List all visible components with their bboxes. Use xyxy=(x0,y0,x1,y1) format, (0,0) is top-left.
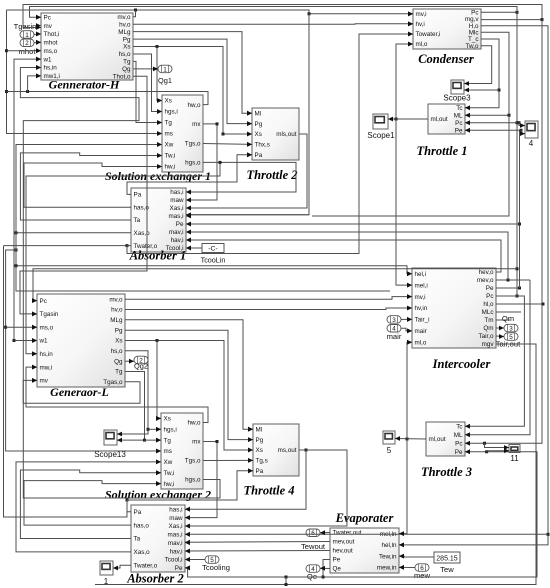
wire Absorber2.Pa to Throttle4.Pa xyxy=(127,468,253,511)
scope Scope3 xyxy=(451,80,464,94)
wire Absorber2.Twater,o to scope 1 xyxy=(113,565,131,570)
svg-text:Xas,o: Xas,o xyxy=(134,549,151,556)
svg-text:ml,out: ml,out xyxy=(429,436,446,443)
wire Gennerator-H.Xs to Throttle2.Xs and Solution exchanger1.Xs xyxy=(133,45,252,136)
svg-text:Tgs,o: Tgs,o xyxy=(185,458,201,465)
svg-text:11: 11 xyxy=(510,454,519,463)
evaporator block Evaporater (flipped) xyxy=(330,528,404,573)
svg-text:hev,out: hev,out xyxy=(333,548,353,555)
wire Generaor-L.Xs to Throttle4.Xs and SolutionExchanger2.Xs xyxy=(125,339,253,452)
label Tcooling xyxy=(202,563,230,572)
svg-text:Tw,o: Tw,o xyxy=(466,43,479,50)
wire Generaor-L.hv,o to Intercooler.hv,in xyxy=(125,306,412,311)
svg-text:mair: mair xyxy=(387,332,402,341)
svg-text:Qg: Qg xyxy=(114,358,123,365)
wire Intercooler.Qm to outport 3 xyxy=(496,326,504,331)
wire Gennerator-H.MLg to Throttle2.Ml xyxy=(133,32,252,116)
wire Condenser.Tw,o to Scope3 xyxy=(464,46,492,86)
label Absorber 1 xyxy=(129,249,187,263)
label Tgasin xyxy=(14,22,37,31)
label 5 xyxy=(387,446,392,455)
wire Condenser.T_c to Throttle1.Tc and Scope3 xyxy=(464,39,501,110)
svg-text:MLg: MLg xyxy=(118,29,131,36)
svg-text:Pg: Pg xyxy=(115,327,123,334)
svg-text:Xas,i: Xas,i xyxy=(170,205,184,212)
label Tair,out xyxy=(496,340,521,349)
label Solution exchanger 1 xyxy=(105,169,211,183)
svg-text:Xs: Xs xyxy=(256,447,263,454)
scope Scope13 xyxy=(104,430,117,445)
wire inport 4 to Intercooler.mair xyxy=(401,328,412,333)
scope 5 xyxy=(383,431,395,444)
svg-text:Ml: Ml xyxy=(256,426,263,433)
svg-text:Pa: Pa xyxy=(134,509,142,516)
svg-text:Ml: Ml xyxy=(255,110,262,117)
wire Absorber1.Xas,o to SolutionExchanger1.Xw and to Intercooler.hel,i xyxy=(15,142,413,276)
svg-text:mav,i: mav,i xyxy=(168,540,183,547)
svg-text:Scope1: Scope1 xyxy=(367,131,395,140)
svg-text:Pg: Pg xyxy=(255,121,263,128)
svg-text:mair: mair xyxy=(415,328,427,335)
wire SolutionExchanger2.hgs,o up left margin switchback to Gennerator-H.hs,in xyxy=(20,65,220,498)
wire inport2 to mhot xyxy=(34,40,41,45)
svg-text:mav,i: mav,i xyxy=(169,229,184,236)
outport Qg2 xyxy=(134,356,148,364)
wire SolutionExchanger1 second hgs,o branch to Absorber1.has,i xyxy=(186,161,296,195)
svg-text:mx: mx xyxy=(192,439,201,446)
label mair xyxy=(387,332,402,341)
wire Evaporater.Pe to Absorber2.Pe and bottom line xyxy=(185,448,537,586)
label Solution exchanger 2 xyxy=(105,488,211,502)
intercooler block Intercooler xyxy=(407,268,496,348)
svg-text:hs,o: hs,o xyxy=(119,51,131,58)
svg-text:Pc: Pc xyxy=(44,14,51,21)
wire left column feed to SolutionExchanger2.ms and Generaor-L.ms,o xyxy=(4,249,161,454)
label Intercooler xyxy=(432,357,491,371)
absorber block Absorber 1 (flipped) xyxy=(131,188,191,252)
svg-text:285.15: 285.15 xyxy=(436,556,458,563)
wire Throttle4.ms,out to Absorber2.Xas,i and has,i xyxy=(185,449,347,529)
svg-text:mv: mv xyxy=(44,23,53,30)
label Qg2 xyxy=(134,362,148,371)
label Evaporater xyxy=(335,511,394,525)
label Qe xyxy=(307,572,317,581)
svg-text:ms: ms xyxy=(164,448,172,455)
svg-text:w1: w1 xyxy=(43,56,53,63)
svg-text:w1: w1 xyxy=(39,338,49,345)
svg-text:Pa: Pa xyxy=(256,468,264,475)
wire Generaor-L.mv,o to Intercooler.mv,i xyxy=(125,294,412,299)
svg-text:has,o: has,o xyxy=(134,522,150,529)
wire Gennerator-H.Tg to SolutionExchanger1.Tg xyxy=(133,61,162,125)
wire Absorber1.Pa to Throttle2.Pa xyxy=(127,152,252,194)
wire line y=291 to Intercooler area xyxy=(15,264,391,291)
svg-text:Throttle 2: Throttle 2 xyxy=(246,168,297,182)
svg-text:Twater,out: Twater,out xyxy=(333,530,362,537)
svg-text:Tgasin: Tgasin xyxy=(14,22,37,31)
label 4 xyxy=(529,139,534,148)
svg-text:Pe: Pe xyxy=(455,449,463,456)
svg-text:Pa: Pa xyxy=(134,192,142,199)
svg-text:hw,o: hw,o xyxy=(188,102,201,109)
svg-text:mas,i: mas,i xyxy=(167,532,182,539)
wire Generaor-L.MLg to Throttle4.Ml xyxy=(125,320,253,432)
wire Generaor-L.Tg to Scope13 and SolutionExchanger2.Tg xyxy=(117,372,161,443)
svg-text:Qg2: Qg2 xyxy=(134,362,148,371)
wire Intercooler.Pc out to Throttle3.Tc xyxy=(465,296,524,429)
svg-text:3: 3 xyxy=(509,326,513,333)
wire mg,v net: Condenser.mg,v up to top line y=4.5 to Gennerator-H.mv and down to Throttle3.Pc xyxy=(23,5,544,446)
svg-text:Xw: Xw xyxy=(164,459,173,466)
svg-text:Tcool,i: Tcool,i xyxy=(165,557,183,564)
svg-text:Pc: Pc xyxy=(455,440,462,447)
svg-text:hs,in: hs,in xyxy=(44,65,58,72)
label Tewout xyxy=(301,542,326,551)
svg-text:ml,out: ml,out xyxy=(431,116,448,123)
svg-text:Tair,o: Tair,o xyxy=(478,333,494,340)
label Condenser xyxy=(418,52,474,66)
svg-text:mas,i: mas,i xyxy=(168,213,183,220)
wire Generaor-L.Tgas,o loop to Generaor-L.mv xyxy=(23,378,140,403)
svg-text:Pc: Pc xyxy=(486,293,493,300)
svg-text:Gennerator-H: Gennerator-H xyxy=(49,78,120,92)
svg-text:1: 1 xyxy=(163,66,167,73)
label Tew xyxy=(440,565,454,574)
wire w1 net vertical x=14 to both generators xyxy=(13,57,42,343)
scope 1 (bottom left) xyxy=(100,561,113,575)
svg-text:Tc: Tc xyxy=(456,423,462,430)
svg-text:Xas,i: Xas,i xyxy=(169,523,183,530)
svg-text:has,i: has,i xyxy=(169,506,182,513)
wire SolutionExchanger1.Tgs,o to Throttle2.Thx,s xyxy=(203,142,252,147)
wire Gennerator-H.hs,o to SolutionExchanger1.hgs,i xyxy=(133,54,162,114)
wire Gennerator-H.Pg to Throttle2.Pg xyxy=(133,39,252,126)
svg-text:hgs,i: hgs,i xyxy=(164,426,177,433)
wire Gennerator-H.Qg to outport Qg1 xyxy=(133,67,158,72)
wire Generaor-L.hs,o to Scope13 and SolutionExchanger2.hgs,i xyxy=(117,351,161,437)
svg-text:Tcooling: Tcooling xyxy=(202,563,230,572)
wire Pe net from Intercooler.Pe up to Throttle1.Pe down to Throttle3.Pe xyxy=(186,128,525,290)
svg-text:hv,o: hv,o xyxy=(111,307,123,314)
svg-text:Pe: Pe xyxy=(176,221,184,228)
wire inport1 to Thot,i xyxy=(34,32,41,37)
label 11 xyxy=(510,454,519,463)
wire Absorber1.Twater,o to Condenser.Towater,i xyxy=(127,32,413,254)
wire inport 3 to Intercooler.Tair_i xyxy=(401,317,412,322)
scope Scope1 xyxy=(373,114,388,129)
svg-text:Ta: Ta xyxy=(134,217,141,224)
svg-text:Tg: Tg xyxy=(165,120,173,127)
svg-text:mv,o: mv,o xyxy=(109,296,123,303)
heat exchanger block Solution exchanger 1 xyxy=(157,95,203,172)
inport 2 xyxy=(20,39,34,47)
svg-text:Xs: Xs xyxy=(115,338,122,345)
wire Generaor-L.Pg to Throttle4.Pg xyxy=(125,330,253,442)
wire Absorber1.Ta to SolutionExchanger1.Tw,i xyxy=(20,153,162,220)
svg-text:Thx,s: Thx,s xyxy=(255,142,270,149)
svg-text:Pg: Pg xyxy=(256,437,264,444)
svg-text:hl,o: hl,o xyxy=(483,301,494,308)
svg-text:Tw,i: Tw,i xyxy=(164,470,175,477)
svg-text:Xs: Xs xyxy=(164,416,171,423)
svg-text:Twater,o: Twater,o xyxy=(134,563,158,570)
svg-text:hel,ln: hel,ln xyxy=(381,542,397,549)
label Scope1 xyxy=(367,131,395,140)
wire SolutionExchanger1.hgs,o to Generaor-L.hs,in xyxy=(26,162,220,356)
svg-text:Pe: Pe xyxy=(455,127,463,134)
svg-text:Absorber 1: Absorber 1 xyxy=(129,249,187,263)
wire Absorber2.Ta to SolutionExchanger2.Tw,i xyxy=(20,470,161,539)
wire left bus x=6.5 / y=10 to Condenser.mv,i and SolutionExchanger1.ms xyxy=(5,9,413,215)
svg-text:mev,o: mev,o xyxy=(477,277,494,284)
wire SolutionExchanger1.hw,o loop to Gennerator-H.mw1,i xyxy=(7,74,209,105)
outport Qg1 xyxy=(158,65,172,73)
svg-text:Absorber 2: Absorber 2 xyxy=(126,572,184,586)
wire SolutionExchanger2.hw,o to Generaor-L.mw,i xyxy=(26,365,208,423)
svg-text:mv,i: mv,i xyxy=(415,294,426,301)
label Scope13 xyxy=(94,450,126,459)
svg-text:3: 3 xyxy=(392,317,396,324)
svg-text:Generaor-L: Generaor-L xyxy=(50,385,109,399)
label Throttle 4 xyxy=(243,484,294,498)
svg-text:mhot: mhot xyxy=(44,40,58,47)
svg-text:ms,o: ms,o xyxy=(40,324,54,331)
svg-text:Ta: Ta xyxy=(134,536,141,543)
svg-text:mew: mew xyxy=(414,571,431,580)
wire Gennerator-H.hv,o to Condenser.hv,i xyxy=(133,21,413,26)
svg-text:Condenser: Condenser xyxy=(418,52,474,66)
wire Evaporater.Qe to outport 4 xyxy=(320,566,330,571)
outport 5 Tair,out xyxy=(504,333,518,341)
svg-text:ML: ML xyxy=(454,432,463,439)
svg-text:Tgs,o: Tgs,o xyxy=(185,140,201,147)
svg-text:hv,o: hv,o xyxy=(119,21,131,28)
svg-text:Tew,in: Tew,in xyxy=(379,553,397,560)
svg-text:Throttle 4: Throttle 4 xyxy=(243,484,294,498)
constant block 285.15 xyxy=(434,552,460,563)
inport 1 xyxy=(20,31,34,39)
wire Generaor-L.Qg to outport Qg2 xyxy=(125,359,134,364)
svg-text:Xs: Xs xyxy=(165,98,172,105)
svg-text:mv: mv xyxy=(40,378,49,385)
wire SolutionExchanger1.mx to Absorber1.maw xyxy=(186,122,219,202)
svg-text:has,i: has,i xyxy=(170,189,183,196)
inport 4 mair xyxy=(387,325,401,333)
svg-text:mx: mx xyxy=(192,121,201,128)
wire right column to Absorber1.mas,i xyxy=(186,114,511,217)
svg-text:1: 1 xyxy=(25,32,29,39)
svg-text:Qg: Qg xyxy=(122,66,131,73)
wire Condenser.H,o down far right to Evaporater.hel,ln xyxy=(399,26,550,548)
svg-text:maw: maw xyxy=(170,197,184,204)
wire constant 285.15 to Evaporater.Tew,in xyxy=(399,554,434,559)
svg-text:ML: ML xyxy=(454,112,463,119)
wire far-left vertical loop x=3.5 xyxy=(4,244,129,517)
svg-text:Pc: Pc xyxy=(455,120,462,127)
svg-text:mv,i: mv,i xyxy=(416,11,427,18)
svg-text:Qg1: Qg1 xyxy=(158,76,172,85)
svg-text:Tair_i: Tair_i xyxy=(415,317,430,324)
svg-text:Tew: Tew xyxy=(440,565,454,574)
absorber block Absorber 2 (flipped) xyxy=(131,505,190,572)
svg-text:mv,o: mv,o xyxy=(117,14,131,21)
svg-text:Solution exchanger 2: Solution exchanger 2 xyxy=(105,488,211,502)
wire Absorber2.Xas,o to SolutionExchanger2.Xw xyxy=(16,460,161,552)
wire Throttle2.mls,out to Absorber1.Xas,i xyxy=(186,134,307,210)
svg-text:hev,o: hev,o xyxy=(479,269,494,276)
wire Throttle1.ml,out to Scope1 and Condenser.ml,o xyxy=(388,42,428,288)
label Throttle 1 xyxy=(416,144,467,158)
outport 6 Tewout xyxy=(306,529,320,537)
svg-text:hs,o: hs,o xyxy=(111,348,123,355)
wire SolutionExchanger2.mx to Absorber2.maw xyxy=(185,440,219,520)
wire Throttle3.ml,out to scope 5, Intercooler.ml,o and Evaporater.mel,ln xyxy=(395,340,426,536)
label 1 xyxy=(104,577,109,586)
svg-text:mhot: mhot xyxy=(19,47,37,56)
svg-text:Tg,s: Tg,s xyxy=(256,458,268,465)
svg-text:6: 6 xyxy=(311,530,315,537)
svg-text:Qe: Qe xyxy=(333,566,342,573)
svg-text:mgv: mgv xyxy=(482,341,495,348)
wire inport 5 Tcooling to Absorber2.Tcool,i xyxy=(185,557,205,562)
svg-text:Scope3: Scope3 xyxy=(443,94,471,103)
svg-text:Thot,i: Thot,i xyxy=(44,31,60,38)
generator block Gennerator-H xyxy=(36,13,133,80)
svg-text:Tewout: Tewout xyxy=(301,542,326,551)
svg-text:Tm: Tm xyxy=(484,317,493,324)
svg-text:Towater,i: Towater,i xyxy=(416,31,441,38)
wire Absorber1.has,o to SolutionExchanger1.hw,i xyxy=(24,163,162,207)
svg-text:mew,in: mew,in xyxy=(377,565,397,572)
label mhot xyxy=(19,47,37,56)
svg-text:hav,i: hav,i xyxy=(171,237,184,244)
svg-text:-C-: -C- xyxy=(208,246,217,253)
svg-text:hgs,o: hgs,o xyxy=(185,477,201,484)
svg-text:Qm: Qm xyxy=(483,325,493,332)
wire constant -C- to Absorber1.Tcool,i xyxy=(186,246,202,251)
wire Evaporater.mev,out to Absorber2.mav,i xyxy=(185,540,330,545)
svg-text:Tg: Tg xyxy=(164,437,172,444)
condenser block Condenser xyxy=(408,9,481,50)
svg-text:Throttle 1: Throttle 1 xyxy=(416,144,467,158)
svg-text:hav,i: hav,i xyxy=(170,548,183,555)
wire inport 6 mew to Evaporater.mew,in xyxy=(399,565,415,570)
svg-text:Tg: Tg xyxy=(123,59,131,66)
svg-text:mw,i: mw,i xyxy=(40,364,53,371)
heat exchanger block Solution exchanger 2 xyxy=(156,413,203,489)
svg-text:hel,i: hel,i xyxy=(415,271,427,278)
label Qm xyxy=(502,314,514,323)
svg-text:ms: ms xyxy=(165,131,173,138)
svg-text:hv,in: hv,in xyxy=(415,305,428,312)
svg-text:Xas,o: Xas,o xyxy=(134,230,151,237)
svg-text:Xw: Xw xyxy=(165,142,174,149)
scope 11 xyxy=(509,445,520,453)
svg-text:ms,out: ms,out xyxy=(278,447,297,454)
throttle block Throttle 1 (flipped) xyxy=(428,104,470,134)
svg-text:Evaporater: Evaporater xyxy=(335,511,394,525)
svg-text:Qm: Qm xyxy=(502,314,514,323)
label Throttle 3 xyxy=(421,465,472,479)
svg-text:Pg: Pg xyxy=(123,36,131,43)
generator block Generaor-L xyxy=(32,294,125,387)
svg-text:4: 4 xyxy=(529,139,534,148)
constant block -C- TcooLin xyxy=(202,244,224,253)
svg-text:Tg: Tg xyxy=(115,369,123,376)
label Generaor-L xyxy=(50,385,109,399)
svg-text:hgs,o: hgs,o xyxy=(185,160,201,167)
wire Condenser.Mlc to Throttle1.ML xyxy=(465,32,509,117)
wire Absorber2.has,o to SolutionExchanger2.hw,i xyxy=(24,481,161,525)
svg-text:maw: maw xyxy=(169,515,183,522)
wire Intercooler.hev,o to Absorber1.hav,i xyxy=(186,238,501,272)
label Qg1 xyxy=(158,76,172,85)
svg-text:mls,out: mls,out xyxy=(276,131,297,138)
scope 4 xyxy=(525,121,538,138)
svg-text:MLg: MLg xyxy=(110,317,123,324)
svg-text:Tc: Tc xyxy=(456,105,462,112)
outport 3 Qm xyxy=(504,324,518,332)
wire SolutionExchanger2.Tgs,o to Throttle4.Tg,s xyxy=(203,458,253,463)
svg-text:hv,i: hv,i xyxy=(416,21,425,28)
svg-text:ms,o: ms,o xyxy=(44,48,58,55)
svg-text:ml,o: ml,o xyxy=(416,41,428,48)
svg-text:Tgasin: Tgasin xyxy=(40,311,59,318)
wire Intercooler.Tm stub xyxy=(496,319,510,321)
wire Evaporater.Twater,out to outport 6 Tewout xyxy=(320,530,330,535)
svg-text:Pe: Pe xyxy=(486,285,494,292)
inport 3 Tair xyxy=(387,316,401,324)
svg-text:ml,o: ml,o xyxy=(415,339,427,346)
wire Intercooler.hl,o to right column xyxy=(496,303,545,306)
wire Gennerator-H.Thot,o to Generaor-L.Tgasin xyxy=(20,76,147,316)
throttle block Throttle 4 xyxy=(248,424,299,476)
svg-text:hgs,i: hgs,i xyxy=(165,109,178,116)
label TcooLin xyxy=(201,256,226,265)
svg-text:MLc: MLc xyxy=(482,309,494,316)
label Scope3 xyxy=(443,94,471,103)
label Throttle 2 xyxy=(246,168,297,182)
wire mas,i line from far right to Absorber2.mas,i xyxy=(185,532,548,537)
wire Intercooler.Tair,o to outport 5 xyxy=(496,334,504,339)
throttle block Throttle 2 xyxy=(247,108,299,160)
wire Intercooler.mgv down to bottom line y=584.5 xyxy=(95,344,536,585)
throttle block Throttle 3 (flipped) xyxy=(426,422,470,456)
label mew xyxy=(414,571,431,580)
svg-text:Intercooler: Intercooler xyxy=(432,357,491,371)
svg-text:Xs: Xs xyxy=(123,44,130,51)
inport 5 Tcooling xyxy=(205,556,219,564)
svg-text:mev,out: mev,out xyxy=(333,539,355,546)
svg-text:Pa: Pa xyxy=(255,152,263,159)
svg-text:Xs: Xs xyxy=(255,131,262,138)
svg-text:Throttle 3: Throttle 3 xyxy=(421,465,472,479)
svg-text:Tw,i: Tw,i xyxy=(165,153,176,160)
svg-text:Pc: Pc xyxy=(40,298,47,305)
wire Intercooler.mev,o to Absorber1.mav,i and Throttle3.ML xyxy=(186,230,530,438)
svg-text:mel,i: mel,i xyxy=(415,282,428,289)
inport 6 mew xyxy=(415,564,429,572)
svg-text:TcooLin: TcooLin xyxy=(201,256,226,265)
svg-text:5: 5 xyxy=(387,446,392,455)
outport 4 Qe xyxy=(306,565,320,573)
svg-text:hs,in: hs,in xyxy=(40,351,54,358)
wire Evaporater.hev,out to Absorber2.hav,i xyxy=(185,549,330,554)
label Gennerator-H xyxy=(49,78,120,92)
wire Pc net: Condenser.Pc along top y=6.5 to Gennerator-H.Pc and down right side xyxy=(30,7,526,450)
wire Intercooler.MLc stub xyxy=(496,311,521,313)
svg-text:Pe: Pe xyxy=(333,557,341,564)
